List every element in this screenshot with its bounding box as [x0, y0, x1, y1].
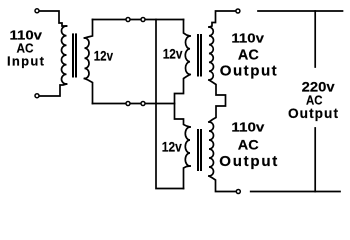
svg-text:12v: 12v	[162, 140, 182, 155]
wire input top	[39, 11, 67, 26]
transformer T1 secondary winding 12v	[85, 38, 90, 79]
wire mid net	[93, 103, 175, 105]
wire T2 primary bottom to T3 primary top	[175, 75, 191, 128]
transformer T1 primary winding	[61, 26, 66, 84]
wire T2 secondary top lead	[209, 11, 236, 27]
connector mid wire right	[141, 102, 145, 106]
connector mid wire left	[126, 102, 130, 106]
connector top wire right	[141, 18, 145, 22]
transformer T2 secondary winding 110v	[209, 27, 214, 80]
transformer T3 secondary winding 110v	[209, 122, 214, 176]
wire T3 secondary bottom lead	[209, 176, 236, 192]
svg-text:12v: 12v	[163, 46, 183, 61]
svg-text:Output: Output	[219, 153, 277, 170]
wire top net	[93, 19, 184, 21]
transformer T1 core	[72, 33, 77, 77]
transformer T3 primary winding 12v	[185, 127, 190, 166]
wire vertical net x156	[156, 20, 184, 189]
svg-text:Input: Input	[7, 54, 45, 69]
svg-text:AC: AC	[238, 138, 259, 153]
wire 220v bottom lead	[314, 128, 316, 192]
svg-text:AC: AC	[238, 48, 259, 64]
wire 220v bottom	[251, 191, 340, 193]
svg-text:110v: 110v	[231, 120, 265, 135]
wire T2 primary top lead	[184, 20, 191, 37]
transformer T3 core	[197, 129, 202, 171]
wire 220v top	[258, 10, 343, 12]
wire T2 secondary bottom to T3 secondary top	[209, 80, 226, 122]
svg-text:12v: 12v	[94, 49, 114, 64]
terminal 110v output top	[236, 9, 240, 13]
svg-text:Output: Output	[220, 62, 277, 79]
svg-text:Output: Output	[288, 106, 338, 121]
transformer T2 core	[197, 34, 202, 77]
transformer T2 primary winding 12v	[185, 36, 190, 75]
wire T1 secondary top lead	[85, 20, 93, 39]
wire T3 primary bottom lead	[184, 166, 191, 189]
connector top wire left	[126, 18, 130, 22]
svg-text:110v: 110v	[231, 31, 264, 46]
wire input bottom	[39, 84, 67, 96]
wire 220v top lead	[314, 11, 316, 67]
terminal 110v output bottom	[236, 190, 240, 194]
wire T1 secondary bottom lead	[85, 79, 93, 104]
terminal input top	[35, 9, 39, 13]
terminal input bottom	[35, 94, 39, 98]
